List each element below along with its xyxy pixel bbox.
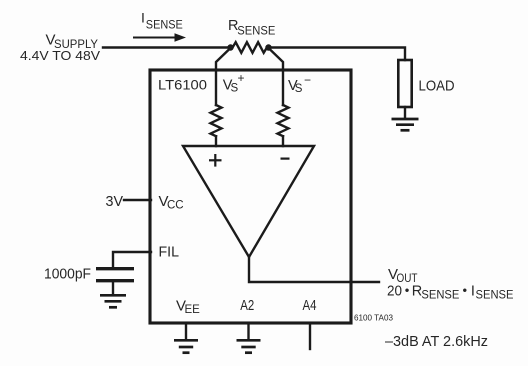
svg-text:LOAD: LOAD	[419, 79, 455, 95]
load resistor	[398, 60, 411, 107]
ground at VEE	[174, 340, 198, 352]
ground at load	[392, 119, 419, 130]
op-amp plus input	[209, 154, 222, 167]
label pin VCC	[159, 193, 184, 212]
ground at capacitor	[100, 295, 126, 307]
wire supply left	[103, 46, 231, 48]
wire op-amp output	[249, 256, 379, 282]
resistor internal left	[211, 105, 222, 136]
svg-text:EE: EE	[185, 304, 201, 316]
label formula 20*RSENSE*ISENSE	[387, 283, 514, 302]
op-amp U1	[183, 146, 314, 257]
svg-text:4.4V TO 48V: 4.4V TO 48V	[20, 48, 100, 63]
svg-text:I: I	[141, 10, 145, 26]
IC box LT6100	[150, 70, 351, 323]
label pin VS-	[288, 73, 311, 95]
svg-text:CC: CC	[167, 200, 184, 212]
wire VEE pin	[185, 323, 187, 339]
label VOUT	[388, 266, 418, 285]
svg-text:20: 20	[387, 284, 402, 300]
wire FIL to capacitor	[113, 252, 151, 267]
junction node left	[227, 44, 233, 50]
wire A4 pin	[309, 323, 311, 349]
op-amp minus input	[281, 158, 290, 160]
svg-text:1000pF: 1000pF	[44, 267, 91, 283]
wire left dot to Vs+ pin	[216, 48, 231, 146]
svg-text:A2: A2	[240, 298, 254, 314]
wire capacitor to ground	[112, 282, 114, 294]
svg-text:•: •	[463, 283, 468, 298]
label ISENSE	[141, 10, 183, 32]
svg-text:A4: A4	[303, 298, 317, 314]
wire A2 pin	[247, 323, 249, 339]
svg-text:SENSE: SENSE	[237, 24, 275, 38]
ground at A2	[237, 340, 261, 352]
label RSENSE	[228, 18, 275, 37]
capacitor C1 1000pF plates	[96, 269, 134, 281]
svg-text:LT6100: LT6100	[158, 78, 207, 93]
wire 3V to VCC	[124, 199, 151, 201]
svg-text:+: +	[238, 71, 245, 85]
wire supply right to load	[269, 48, 406, 61]
junction node right	[265, 44, 271, 50]
label VSUPPLY	[20, 31, 100, 63]
wire right dot to Vs- pin	[269, 48, 284, 146]
wire load to ground	[404, 107, 406, 118]
svg-text:−: −	[304, 73, 311, 87]
label pin VEE	[176, 298, 200, 317]
svg-text:SENSE: SENSE	[476, 290, 514, 302]
svg-text:•: •	[405, 283, 410, 298]
arrow ISENSE	[133, 33, 186, 41]
svg-text:S: S	[295, 83, 303, 95]
svg-text:FIL: FIL	[159, 244, 180, 260]
resistor RSENSE	[233, 42, 267, 53]
svg-text:SENSE: SENSE	[146, 18, 183, 32]
svg-text:3V: 3V	[106, 194, 124, 210]
svg-text:SENSE: SENSE	[421, 290, 459, 302]
svg-text:–3dB AT 2.6kHz: –3dB AT 2.6kHz	[385, 334, 488, 350]
svg-text:I: I	[471, 284, 475, 300]
resistor internal right	[278, 105, 289, 136]
label pin VS+	[223, 71, 245, 95]
svg-text:6100 TA03: 6100 TA03	[354, 313, 393, 323]
